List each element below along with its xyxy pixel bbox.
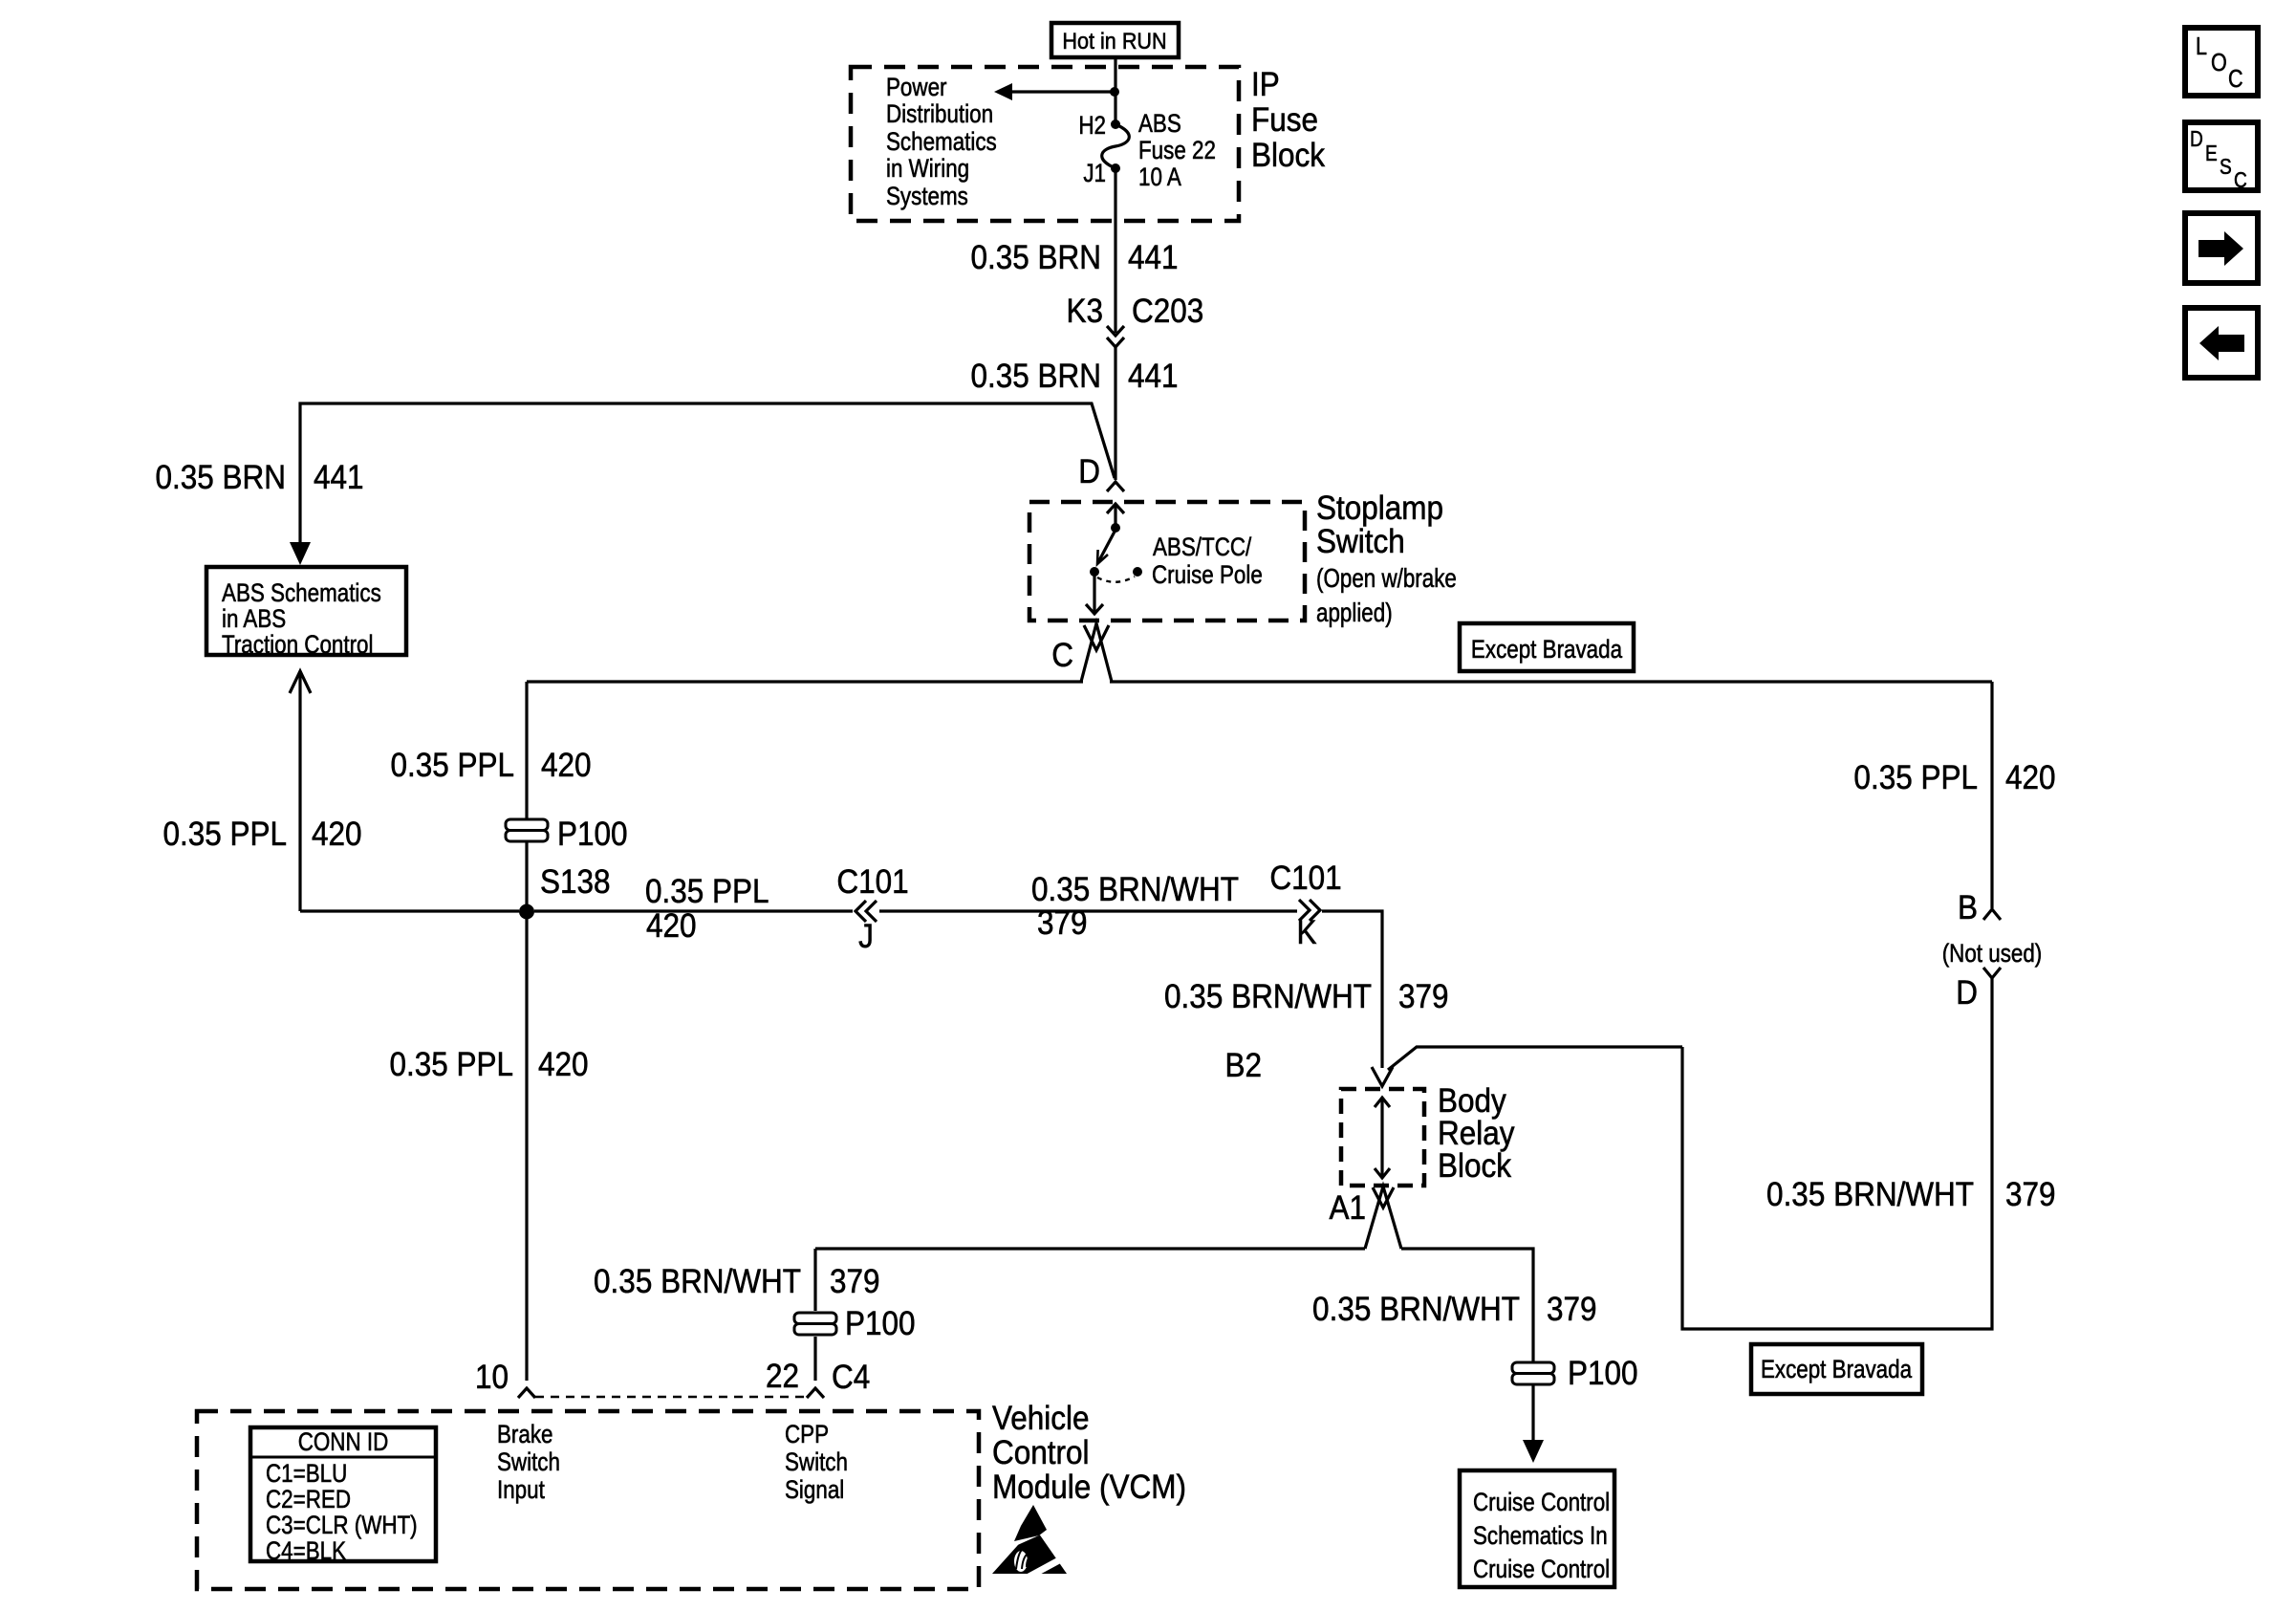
- svg-text:379: 379: [1037, 905, 1088, 943]
- svg-text:0.35 BRN/WHT: 0.35 BRN/WHT: [1766, 1177, 1974, 1214]
- grommet P100 (center): [794, 1306, 916, 1343]
- label: 0.35 PPL 420 (two line): [645, 874, 769, 946]
- label: pin D: [1078, 454, 1100, 491]
- label: pin 10: [475, 1360, 509, 1397]
- label: 0.35 BRN 441 (left branch): [155, 460, 363, 497]
- connector A1 crossed chevrons: [1365, 1186, 1401, 1249]
- svg-text:Except Bravada: Except Bravada: [1471, 636, 1622, 664]
- wire: ABS branch corner to S138: [300, 909, 519, 912]
- wire: right branch into B2: [1388, 1047, 1682, 1070]
- switch plunger arrow (up): [1107, 504, 1124, 525]
- node: Hot in RUN power feed box: [1051, 23, 1179, 57]
- arrow chevron up into ABS box: [290, 671, 311, 911]
- wire: P100 to VCM pin 22: [813, 1337, 816, 1381]
- svg-text:S138: S138: [540, 864, 611, 902]
- label: ABS Fuse 22 10 A: [1138, 110, 1216, 191]
- label: 0.35 BRN/WHT 379 (right): [1766, 1177, 2055, 1214]
- svg-text:Block: Block: [1251, 138, 1325, 175]
- text: ABS Schematics in ABS Traction Control: [222, 579, 381, 659]
- label: pin 22: [766, 1359, 799, 1396]
- label: (Not used): [1942, 940, 2043, 968]
- Cruise Control reference box: [1460, 1470, 1614, 1587]
- svg-text:0.35 BRN: 0.35 BRN: [970, 240, 1101, 277]
- label: 0.35 BRN/WHT 379 (left lower): [594, 1264, 879, 1301]
- svg-text:379: 379: [830, 1264, 880, 1301]
- connector chevron VCM pin 10: [518, 1388, 535, 1398]
- button: next arrow: [2185, 213, 2258, 283]
- label: 0.35 PPL 420 (right): [1853, 760, 2055, 797]
- svg-text:0.35 PPL: 0.35 PPL: [162, 816, 287, 854]
- svg-text:C: C: [1051, 638, 1073, 675]
- label: B2: [1224, 1048, 1262, 1085]
- svg-text:K: K: [1296, 915, 1316, 952]
- svg-text:0.35 BRN/WHT: 0.35 BRN/WHT: [1312, 1292, 1520, 1329]
- svg-text:J1: J1: [1083, 160, 1106, 187]
- svg-text:CONN ID: CONN ID: [298, 1428, 389, 1456]
- Except Bravada tag box (upper): [1460, 623, 1634, 671]
- svg-text:420: 420: [541, 748, 592, 785]
- label: 0.35 BRN/WHT 379 (above P100 right): [1312, 1292, 1596, 1329]
- svg-text:0.35 BRN: 0.35 BRN: [970, 359, 1101, 396]
- connector pin C crossed chevrons: [1081, 623, 1112, 682]
- wire: K to body relay riser: [1322, 911, 1382, 1068]
- svg-text:Fuse: Fuse: [1251, 102, 1318, 140]
- svg-text:C101: C101: [836, 864, 908, 902]
- label: A1: [1329, 1190, 1366, 1228]
- svg-text:H2: H2: [1078, 112, 1106, 140]
- svg-text:0.35 BRN/WHT: 0.35 BRN/WHT: [1164, 979, 1372, 1016]
- label: terminal D (right): [1956, 975, 1978, 1012]
- label: 0.35 PPL 420 (below S138): [389, 1047, 588, 1084]
- svg-text:0.35 PPL: 0.35 PPL: [390, 748, 514, 785]
- connector chevron VCM pin 22: [807, 1388, 824, 1398]
- switch second pole dot: [1133, 567, 1142, 577]
- svg-text:applied): applied): [1316, 599, 1393, 628]
- svg-text:(Not used): (Not used): [1942, 940, 2043, 968]
- svg-text:in ABS: in ABS: [222, 605, 286, 633]
- wire: C101 J to C101 K: [879, 909, 1297, 912]
- text: Cruise Control Schematics In Cruise Control: [1473, 1489, 1610, 1583]
- svg-text:Power: Power: [886, 74, 946, 101]
- ESD sensitive device symbol: [992, 1505, 1070, 1579]
- svg-text:ABS: ABS: [1138, 110, 1181, 138]
- label: C101 over K: [1269, 860, 1341, 898]
- connector C101 terminal J chevrons: [856, 901, 877, 922]
- wire: A1 fork left run: [815, 1247, 1365, 1250]
- svg-text:0.35 BRN/WHT: 0.35 BRN/WHT: [594, 1264, 801, 1301]
- connector chevron pin D: [1107, 482, 1124, 491]
- svg-text:Switch: Switch: [497, 1448, 560, 1476]
- label: pin C: [1051, 638, 1073, 675]
- svg-text:0.35 PPL: 0.35 PPL: [1853, 760, 1978, 797]
- svg-text:Block: Block: [1438, 1148, 1511, 1186]
- label: 0.35 BRN 441 (above C203): [970, 240, 1178, 277]
- svg-text:C: C: [2234, 168, 2247, 192]
- svg-text:441: 441: [314, 460, 364, 497]
- svg-text:D: D: [1956, 975, 1978, 1012]
- svg-text:C4=BLK: C4=BLK: [266, 1537, 346, 1565]
- junction dot on feed wire: [1110, 87, 1119, 97]
- label: ABS/TCC/ Cruise Pole: [1152, 533, 1263, 589]
- svg-text:Cruise Pole: Cruise Pole: [1152, 561, 1263, 589]
- svg-text:P100: P100: [845, 1306, 916, 1343]
- wire: J1 down to connector C203: [1114, 168, 1116, 333]
- grommet P100 (left riser): [506, 816, 628, 854]
- label: 0.35 BRN/WHT 379 (above B2): [1164, 979, 1448, 1016]
- wire: right riser down to B: [1990, 682, 1993, 908]
- svg-text:0.35 BRN/WHT: 0.35 BRN/WHT: [1031, 872, 1239, 909]
- svg-text:Cruise Control: Cruise Control: [1473, 1556, 1610, 1583]
- Body Relay Block dashed box: [1341, 1089, 1424, 1186]
- wire: S138 down to VCM pin 10: [525, 919, 528, 1381]
- svg-text:Schematics In: Schematics In: [1473, 1522, 1608, 1550]
- wire: Hot in RUN down to fuse H2: [1114, 57, 1116, 124]
- svg-text:Switch: Switch: [1316, 524, 1405, 561]
- svg-text:A1: A1: [1329, 1190, 1366, 1228]
- svg-text:Distribution: Distribution: [886, 100, 993, 128]
- switch dashed travel arc: [1097, 577, 1135, 582]
- label: terminal J: [858, 919, 874, 956]
- wire: C203 down to stoplamp switch pin D: [1114, 346, 1116, 480]
- svg-text:Hot in RUN: Hot in RUN: [1062, 28, 1166, 54]
- label: connector C4: [832, 1360, 870, 1397]
- button: LOC: [2185, 28, 2258, 96]
- wire: S138 to C101 J: [534, 909, 853, 912]
- svg-text:K3: K3: [1066, 294, 1103, 331]
- text: Brake Switch Input: [497, 1421, 560, 1504]
- connector C203 double chevron: [1107, 326, 1124, 347]
- svg-text:420: 420: [2005, 760, 2056, 797]
- svg-text:IP: IP: [1251, 67, 1280, 104]
- label: 0.35 BRN 441 (below C203): [970, 359, 1178, 396]
- svg-text:Vehicle: Vehicle: [992, 1401, 1090, 1438]
- label: K3 C203: [1066, 294, 1203, 331]
- svg-text:Stoplamp: Stoplamp: [1316, 490, 1443, 528]
- svg-text:22: 22: [766, 1359, 799, 1396]
- svg-text:0.35 PPL: 0.35 PPL: [389, 1047, 513, 1084]
- svg-text:Fuse 22: Fuse 22: [1138, 137, 1216, 164]
- svg-text:C1=BLU: C1=BLU: [266, 1460, 347, 1488]
- svg-text:Traction Control: Traction Control: [222, 631, 374, 659]
- wire: A1 fork right run: [1401, 1249, 1533, 1363]
- svg-text:Cruise Control: Cruise Control: [1473, 1489, 1610, 1516]
- label: 0.35 BRN/WHT 379 (two line): [1031, 872, 1239, 943]
- wire: left run down to P100: [813, 1249, 816, 1311]
- wire: bus from S138 riser to pin C fork: [527, 680, 1083, 683]
- svg-text:441: 441: [1128, 240, 1179, 277]
- svg-text:0.35 PPL: 0.35 PPL: [645, 874, 769, 911]
- fuse ABS Fuse 22 element: [1102, 124, 1130, 168]
- svg-text:10: 10: [475, 1360, 509, 1397]
- button: DESC: [2185, 122, 2258, 192]
- IP Fuse Block dashed box: [851, 67, 1239, 221]
- switch lever with arrowhead: [1097, 532, 1115, 564]
- svg-text:O: O: [2211, 49, 2227, 76]
- CONN ID table: [250, 1427, 436, 1566]
- svg-text:C4: C4: [832, 1360, 870, 1397]
- svg-text:C: C: [2228, 65, 2243, 93]
- switch pivot dot: [1111, 523, 1120, 533]
- label: C101 over J: [836, 864, 908, 902]
- svg-text:10 A: 10 A: [1138, 163, 1181, 191]
- svg-text:L: L: [2196, 33, 2207, 60]
- grommet P100 (right): [1512, 1356, 1638, 1393]
- wire: P100 to cruise control arrow: [1531, 1383, 1534, 1446]
- label: terminal B: [1958, 890, 1978, 927]
- svg-text:Systems: Systems: [886, 183, 968, 210]
- wire: branch from pin D to ABS schematics: [300, 403, 1115, 548]
- label: Stoplamp Switch (Open w/brake applied): [1316, 490, 1457, 628]
- wire: D down around to B2: [1682, 978, 1992, 1329]
- Stoplamp Switch dashed box: [1029, 502, 1305, 620]
- arrowhead into Cruise Control box: [1523, 1440, 1544, 1463]
- svg-text:D: D: [1078, 454, 1100, 491]
- svg-text:ABS Schematics: ABS Schematics: [222, 579, 381, 607]
- svg-text:Schematics: Schematics: [886, 128, 997, 156]
- svg-text:C3=CLR (WHT): C3=CLR (WHT): [266, 1512, 418, 1539]
- svg-text:ABS/TCC/: ABS/TCC/: [1153, 533, 1251, 561]
- fuse terminal J1: [1083, 160, 1120, 187]
- label: 0.35 PPL 420 (above P100): [390, 748, 591, 785]
- svg-text:420: 420: [312, 816, 362, 854]
- svg-text:Switch: Switch: [785, 1448, 848, 1476]
- svg-text:Input: Input: [497, 1476, 545, 1504]
- svg-text:379: 379: [1547, 1292, 1597, 1329]
- Except Bravada tag box (lower): [1751, 1344, 1922, 1394]
- svg-text:Signal: Signal: [785, 1476, 844, 1504]
- switch output wire with down arrow: [1086, 576, 1103, 614]
- svg-text:P100: P100: [1568, 1356, 1638, 1393]
- relay pass-through arrow: [1375, 1098, 1390, 1178]
- label: terminal K: [1296, 915, 1316, 952]
- svg-text:420: 420: [538, 1047, 589, 1084]
- svg-text:B2: B2: [1224, 1048, 1262, 1085]
- svg-text:379: 379: [1398, 979, 1449, 1016]
- svg-text:B: B: [1958, 890, 1978, 927]
- label: Body Relay Block: [1438, 1083, 1515, 1186]
- svg-text:in Wiring: in Wiring: [886, 155, 969, 183]
- ABS Schematics reference box: [206, 567, 406, 655]
- svg-text:D: D: [2190, 127, 2203, 151]
- svg-text:P100: P100: [557, 816, 628, 854]
- connector C101 terminal K chevrons: [1299, 900, 1320, 921]
- svg-text:J: J: [858, 919, 874, 956]
- note: Power Distribution Schematics in Wiring Systems: [886, 74, 997, 210]
- switch pole dot (ABS/TCC/Cruise): [1090, 567, 1099, 577]
- svg-text:C101: C101: [1269, 860, 1341, 898]
- wire: P100 to S138: [525, 841, 528, 904]
- svg-text:Control: Control: [992, 1435, 1090, 1472]
- svg-text:Brake: Brake: [497, 1421, 553, 1448]
- dashed connector face line: [535, 1396, 807, 1399]
- svg-text:379: 379: [2005, 1177, 2056, 1214]
- Vehicle Control Module dashed box: [197, 1411, 979, 1589]
- button: previous arrow: [2185, 308, 2258, 378]
- wire: bus from pin C fork to right riser: [1110, 680, 1992, 683]
- label: 0.35 PPL 420 (up-branch): [162, 816, 361, 854]
- wire: riser top segment: [525, 682, 528, 819]
- arrowhead into ABS Schematics box: [290, 542, 311, 565]
- label: Vehicle Control Module (VCM): [992, 1401, 1186, 1507]
- connector chevron D (right): [1983, 968, 2001, 978]
- svg-text:S: S: [2220, 155, 2232, 179]
- svg-text:Module (VCM): Module (VCM): [992, 1469, 1186, 1507]
- fuse terminal H2: [1078, 112, 1120, 140]
- svg-text:0.35 BRN: 0.35 BRN: [155, 460, 286, 497]
- connector chevron B (not used): [1983, 909, 2001, 920]
- svg-text:CPP: CPP: [785, 1421, 829, 1448]
- svg-text:Except Bravada: Except Bravada: [1761, 1356, 1912, 1383]
- svg-text:C2=RED: C2=RED: [266, 1486, 351, 1513]
- svg-text:420: 420: [646, 908, 697, 946]
- label: IP Fuse Block: [1251, 67, 1325, 175]
- svg-text:C203: C203: [1132, 294, 1203, 331]
- connector chevron B2: [1372, 1067, 1393, 1086]
- svg-text:(Open w/brake: (Open w/brake: [1316, 564, 1457, 594]
- arrow: feed to Power Distribution note: [994, 83, 1115, 100]
- text: CPP Switch Signal: [785, 1421, 848, 1504]
- splice S138: [519, 864, 611, 920]
- svg-text:E: E: [2205, 142, 2218, 165]
- svg-text:441: 441: [1128, 359, 1179, 396]
